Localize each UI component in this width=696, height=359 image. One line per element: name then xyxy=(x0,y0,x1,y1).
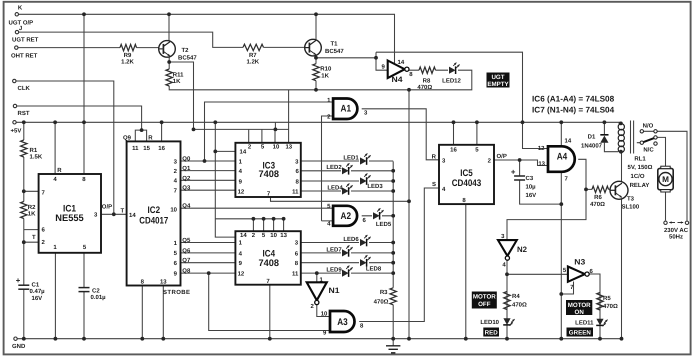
svg-text:Q2: Q2 xyxy=(182,175,191,182)
svg-text:11: 11 xyxy=(292,270,299,277)
svg-text:LED7: LED7 xyxy=(326,246,342,253)
svg-text:O/P: O/P xyxy=(102,204,112,211)
svg-text:R8: R8 xyxy=(423,77,431,84)
svg-text:A2: A2 xyxy=(341,211,352,222)
svg-text:R11: R11 xyxy=(173,72,184,79)
svg-text:STROBE: STROBE xyxy=(163,289,190,296)
svg-text:Q6: Q6 xyxy=(182,247,191,254)
svg-text:O/P: O/P xyxy=(497,153,507,160)
svg-text:R5: R5 xyxy=(603,295,611,302)
svg-text:MOTOR: MOTOR xyxy=(473,294,496,301)
svg-text:IC2: IC2 xyxy=(148,205,161,216)
svg-text:12: 12 xyxy=(238,270,245,277)
svg-text:T: T xyxy=(120,207,124,214)
svg-text:RL1: RL1 xyxy=(634,155,646,162)
svg-text:OFF: OFF xyxy=(478,301,491,308)
svg-text:470Ω: 470Ω xyxy=(590,201,605,208)
svg-text:R: R xyxy=(57,167,62,174)
svg-text:0.01µ: 0.01µ xyxy=(91,294,107,301)
svg-text:RELAY: RELAY xyxy=(630,182,650,189)
svg-text:N/O: N/O xyxy=(643,122,654,129)
svg-text:IC7 (N1-N4) = 74LS04: IC7 (N1-N4) = 74LS04 xyxy=(532,105,615,114)
svg-text:+5V: +5V xyxy=(11,127,22,134)
svg-text:470Ω: 470Ω xyxy=(603,303,618,310)
svg-text:C3: C3 xyxy=(526,175,534,182)
svg-text:R4: R4 xyxy=(512,293,520,300)
svg-text:7408: 7408 xyxy=(259,169,280,180)
svg-text:Q1: Q1 xyxy=(182,165,191,172)
svg-text:T: T xyxy=(32,234,36,241)
svg-text:11: 11 xyxy=(132,145,139,152)
svg-text:LED1: LED1 xyxy=(343,154,359,161)
svg-text:10µ: 10µ xyxy=(526,184,537,191)
svg-text:14: 14 xyxy=(398,59,405,66)
svg-text:T1: T1 xyxy=(331,41,339,48)
svg-text:470Ω: 470Ω xyxy=(512,301,527,308)
svg-text:1.2K: 1.2K xyxy=(121,59,134,66)
svg-text:LED11: LED11 xyxy=(575,319,594,326)
svg-text:11: 11 xyxy=(292,188,299,195)
svg-text:T2: T2 xyxy=(182,47,190,54)
svg-text:Q5: Q5 xyxy=(182,237,191,244)
svg-text:1C/O: 1C/O xyxy=(630,173,644,180)
svg-text:A4: A4 xyxy=(557,152,568,163)
svg-text:T3: T3 xyxy=(627,195,635,202)
svg-text:R7: R7 xyxy=(249,52,257,59)
svg-text:14: 14 xyxy=(240,149,247,156)
svg-text:CD4043: CD4043 xyxy=(452,178,482,189)
svg-text:GND: GND xyxy=(12,343,26,350)
svg-text:CD4017: CD4017 xyxy=(139,216,168,227)
svg-text:R1: R1 xyxy=(30,147,38,154)
svg-text:Q9: Q9 xyxy=(123,134,132,141)
svg-text:N3: N3 xyxy=(574,258,586,267)
svg-text:MOTOR: MOTOR xyxy=(568,302,591,309)
svg-text:CLK: CLK xyxy=(18,85,31,92)
svg-text:R2: R2 xyxy=(28,204,36,211)
svg-text:SL100: SL100 xyxy=(622,204,640,211)
svg-text:16: 16 xyxy=(158,145,165,152)
svg-text:BC547: BC547 xyxy=(178,55,197,62)
svg-text:ON: ON xyxy=(575,309,585,316)
svg-text:OHT RET: OHT RET xyxy=(11,52,38,59)
svg-text:15: 15 xyxy=(143,145,150,152)
svg-text:13: 13 xyxy=(160,278,167,285)
svg-text:470Ω: 470Ω xyxy=(417,84,432,91)
svg-text:10: 10 xyxy=(321,311,328,318)
svg-text:+: + xyxy=(16,276,21,285)
svg-text:Q8: Q8 xyxy=(182,268,191,275)
svg-text:M: M xyxy=(662,175,669,184)
svg-text:+: + xyxy=(511,168,516,177)
svg-text:14: 14 xyxy=(240,232,247,239)
svg-text:13: 13 xyxy=(538,160,545,167)
svg-text:7408: 7408 xyxy=(259,258,280,269)
svg-text:R10: R10 xyxy=(320,66,332,73)
svg-text:LED3: LED3 xyxy=(367,183,383,190)
svg-text:LED10: LED10 xyxy=(480,319,499,326)
svg-text:S: S xyxy=(432,181,436,188)
svg-text:N4: N4 xyxy=(392,75,404,84)
svg-text:10: 10 xyxy=(170,206,177,213)
svg-text:RST: RST xyxy=(18,110,30,117)
svg-text:LED9: LED9 xyxy=(326,267,342,274)
svg-text:Q0: Q0 xyxy=(182,156,191,163)
svg-text:Q4: Q4 xyxy=(182,203,191,210)
svg-text:LED4: LED4 xyxy=(327,184,343,191)
svg-text:5V, 150Ω: 5V, 150Ω xyxy=(628,164,653,171)
svg-text:1.5K: 1.5K xyxy=(30,154,43,161)
svg-text:12: 12 xyxy=(238,188,245,195)
svg-text:LED2: LED2 xyxy=(326,164,342,171)
svg-text:14: 14 xyxy=(129,212,136,219)
svg-text:1K: 1K xyxy=(173,78,181,85)
svg-text:R3: R3 xyxy=(380,289,388,296)
svg-text:A1: A1 xyxy=(341,104,352,115)
svg-text:16V: 16V xyxy=(526,192,537,199)
svg-text:UGT RET: UGT RET xyxy=(12,37,39,44)
svg-text:16V: 16V xyxy=(32,295,43,302)
svg-text:D1: D1 xyxy=(588,134,596,141)
svg-text:1.2K: 1.2K xyxy=(246,59,259,66)
svg-text:R9: R9 xyxy=(124,52,132,59)
svg-text:12: 12 xyxy=(538,145,545,152)
svg-text:K: K xyxy=(18,5,23,12)
svg-text:LED5: LED5 xyxy=(376,221,392,228)
svg-text:0.47µ: 0.47µ xyxy=(30,288,46,295)
svg-text:IC6 (A1-A4) = 74LS08: IC6 (A1-A4) = 74LS08 xyxy=(532,95,615,104)
svg-text:N/C: N/C xyxy=(643,146,654,153)
svg-text:Q3: Q3 xyxy=(182,185,191,192)
svg-text:NE555: NE555 xyxy=(55,213,84,224)
svg-text:LED8: LED8 xyxy=(366,265,382,272)
svg-text:13: 13 xyxy=(285,143,292,150)
svg-text:J: J xyxy=(19,25,22,32)
svg-text:Q7: Q7 xyxy=(182,257,191,264)
svg-text:230V AC: 230V AC xyxy=(664,227,689,234)
svg-text:C2: C2 xyxy=(92,287,100,294)
svg-text:N2: N2 xyxy=(517,245,528,254)
svg-text:470Ω: 470Ω xyxy=(374,299,389,306)
svg-text:LED6: LED6 xyxy=(343,236,359,243)
svg-text:1K: 1K xyxy=(28,210,36,217)
svg-text:RED: RED xyxy=(485,329,499,336)
svg-text:50Hz: 50Hz xyxy=(669,234,683,241)
svg-text:GREEN: GREEN xyxy=(569,329,592,336)
svg-text:EMPTY: EMPTY xyxy=(487,81,509,88)
svg-text:16: 16 xyxy=(450,146,457,153)
svg-text:13: 13 xyxy=(280,232,287,239)
svg-text:14: 14 xyxy=(565,138,572,145)
svg-text:A3: A3 xyxy=(337,317,348,328)
svg-text:1N4007: 1N4007 xyxy=(581,143,603,150)
svg-text:R6: R6 xyxy=(594,194,602,201)
svg-text:LED12: LED12 xyxy=(442,77,461,84)
svg-text:R: R xyxy=(432,153,437,160)
svg-text:1K: 1K xyxy=(321,73,329,80)
svg-text:10: 10 xyxy=(270,232,277,239)
svg-text:R: R xyxy=(148,134,153,141)
svg-text:N1: N1 xyxy=(329,286,341,295)
svg-text:BC547: BC547 xyxy=(325,48,344,55)
svg-text:10: 10 xyxy=(273,143,280,150)
svg-text:C1: C1 xyxy=(32,281,40,288)
